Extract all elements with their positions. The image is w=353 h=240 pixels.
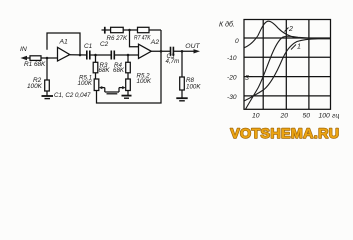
wire R6/R7 node to A2 inverting input — [130, 30, 139, 47]
wire R6 to R7 — [123, 29, 137, 31]
curve 1 (gentle high-pass) — [244, 39, 331, 101]
capacitor C2 — [111, 51, 114, 60]
svg-text:A2: A2 — [150, 39, 160, 46]
wire R5.2 to ground — [127, 91, 129, 96]
svg-text:100K: 100K — [137, 78, 152, 85]
resistor R1 — [30, 56, 41, 61]
wire R1 to A1 input — [41, 57, 58, 59]
terminal bar R6 left — [104, 27, 106, 34]
svg-text:100K: 100K — [186, 84, 201, 91]
resistor R3 — [93, 62, 98, 73]
curve label 1 tick — [291, 45, 296, 50]
wire R8 to ground — [181, 90, 183, 98]
svg-text:50: 50 — [303, 113, 311, 120]
svg-text:R1 68K: R1 68K — [24, 61, 46, 68]
op-amp A2 — [139, 44, 152, 58]
svg-text:C1: C1 — [84, 43, 93, 50]
wire C2 to A2 — [114, 54, 139, 56]
ground (R2) — [42, 95, 54, 97]
svg-text:-10: -10 — [227, 55, 237, 62]
potentiometer R5.1 — [94, 79, 99, 91]
svg-text:R6 27K: R6 27K — [107, 35, 129, 42]
watermark VOTSHEMA.RU — [230, 126, 339, 142]
wire R5.1 bottom rail — [97, 30, 162, 103]
svg-text:OUT: OUT — [185, 43, 200, 50]
node C1/R3 — [94, 54, 97, 57]
resistor R2 — [45, 80, 50, 91]
svg-text:VOTSHEMA.RU: VOTSHEMA.RU — [230, 126, 339, 142]
graph frame and grid — [244, 20, 331, 110]
wire A1 output — [70, 54, 87, 56]
wire node to R4 — [127, 55, 129, 62]
wire node to R8 — [181, 51, 183, 77]
op-amp A1 feedback loop wire — [47, 33, 80, 55]
node feedback A2 output — [160, 50, 163, 53]
wiper R5.2 — [119, 86, 126, 92]
curve 2 (boost hump) — [244, 21, 331, 48]
ground (R8) — [176, 97, 187, 99]
svg-text:100: 100 — [319, 113, 331, 120]
svg-text:20: 20 — [280, 113, 289, 120]
svg-text:2: 2 — [288, 26, 293, 33]
OUT arrow — [194, 49, 201, 53]
svg-text:1: 1 — [297, 44, 301, 51]
potentiometer R5.2 — [126, 79, 131, 91]
svg-text:68K: 68K — [99, 67, 111, 74]
wire C3 to OUT — [173, 50, 197, 52]
resistor R4 — [126, 62, 131, 73]
svg-text:10: 10 — [252, 113, 260, 120]
svg-text:R7 47K: R7 47K — [134, 35, 151, 42]
resistor R6 — [111, 27, 124, 32]
wire R3 to R5.1 — [95, 73, 97, 79]
op-amp A1 — [58, 47, 70, 61]
wiper R5.1 — [99, 86, 105, 92]
svg-text:A1: A1 — [59, 39, 69, 46]
gang link R5.1/R5.2 — [105, 91, 119, 93]
node feedback/output A1 — [79, 54, 82, 57]
curve label 2 tick — [285, 28, 289, 32]
svg-text:68K: 68K — [113, 67, 125, 74]
svg-text:-20: -20 — [227, 75, 237, 82]
svg-text:гц: гц — [332, 113, 339, 120]
wire to R2 — [46, 58, 48, 80]
wire C1 to C2 — [90, 54, 111, 56]
capacitor C3 — [171, 47, 174, 56]
svg-text:IN: IN — [20, 46, 27, 53]
node C2/R4 — [127, 54, 130, 57]
resistor R7 — [138, 27, 150, 32]
svg-text:4,7m: 4,7m — [166, 58, 180, 65]
svg-text:К дб.: К дб. — [219, 21, 235, 29]
wire R4 to R5.2 — [127, 73, 129, 79]
wire R7 to output node — [149, 29, 161, 31]
svg-text:C2: C2 — [100, 41, 109, 48]
ground (R5.2) — [122, 95, 132, 97]
svg-text:-30: -30 — [227, 94, 237, 101]
curve label 3 tick — [253, 76, 261, 78]
svg-text:C1, C2 0,047: C1, C2 0,047 — [54, 92, 91, 99]
wire R2 to ground — [46, 91, 48, 96]
svg-text:3: 3 — [245, 75, 249, 82]
node R8 — [181, 50, 184, 53]
capacitor C1 — [87, 51, 90, 60]
svg-text:100K: 100K — [27, 83, 43, 90]
svg-text:100K: 100K — [78, 80, 93, 87]
node junction R1/R2 — [46, 57, 49, 60]
wire A2 output — [151, 50, 170, 52]
node R6/R7 — [128, 29, 131, 32]
resistor R8 — [180, 77, 185, 90]
curve 3 (steep high-pass) — [246, 36, 319, 109]
wire stub left of R6 — [102, 29, 111, 31]
wire node to R3 — [95, 55, 97, 62]
svg-text:0: 0 — [235, 38, 239, 45]
IN input arrow — [21, 56, 31, 60]
